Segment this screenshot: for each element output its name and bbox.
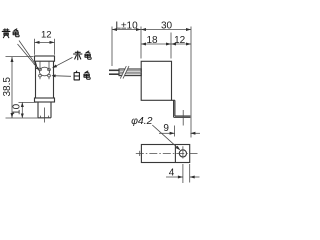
stem xyxy=(38,102,51,118)
extension lines xyxy=(112,27,191,138)
cable jacket xyxy=(119,66,141,79)
leader red to top-right terminal xyxy=(52,57,73,68)
dimension L±10 xyxy=(112,21,141,32)
dimension 12 (bracket) xyxy=(171,35,191,46)
label φ4.2 xyxy=(131,115,180,150)
bracket step xyxy=(172,100,191,117)
reed switch glass envelope xyxy=(39,67,49,76)
dimension 30 xyxy=(141,21,191,32)
bottom view body xyxy=(141,145,189,163)
terminal circles xyxy=(39,68,51,77)
hole centerline (side) xyxy=(182,110,184,126)
dimension 10 (stem height) xyxy=(12,102,37,118)
flange xyxy=(35,98,55,102)
svg-text:9: 9 xyxy=(163,123,169,134)
svg-text:φ4.2: φ4.2 xyxy=(131,115,153,127)
reed switch leads xyxy=(40,61,49,79)
bare wires xyxy=(109,70,119,74)
svg-text:10: 10 xyxy=(12,103,23,115)
leader yellow to left lead xyxy=(18,41,40,71)
leader white to bottom-right terminal xyxy=(52,74,72,77)
sensor body xyxy=(36,61,54,98)
label yellow 黄色 xyxy=(2,29,19,38)
dimension 38.5 (overall height) xyxy=(2,57,44,119)
dimension 18 xyxy=(141,35,171,46)
label red 赤色 xyxy=(74,51,92,60)
dimension 9 (foot length) xyxy=(159,123,200,137)
svg-text:30: 30 xyxy=(161,21,173,32)
horizontal centerline xyxy=(136,152,198,154)
dimension 4 (hole to edge) xyxy=(166,164,200,183)
sensor cap (top) xyxy=(35,56,55,61)
svg-text:12: 12 xyxy=(41,29,52,40)
cable break marks xyxy=(120,66,129,79)
mounting hole xyxy=(179,150,186,157)
vertical centerline / extension xyxy=(182,146,184,158)
svg-text:38.5: 38.5 xyxy=(2,77,13,97)
bracket fold line xyxy=(174,145,176,163)
svg-text:L±10: L±10 xyxy=(116,21,139,32)
dimension 12 (top width) xyxy=(35,29,55,54)
stem centerline xyxy=(44,108,46,123)
label white 白色 xyxy=(74,71,90,80)
side body xyxy=(141,61,171,100)
